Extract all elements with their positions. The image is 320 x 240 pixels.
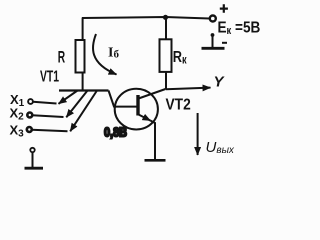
emitter arrow X1 of VT1 bbox=[59, 91, 78, 104]
junction node on top rail bbox=[163, 15, 168, 20]
transistor VT2 base bar bbox=[136, 95, 139, 116]
svg-text:0,8В: 0,8В bbox=[104, 125, 127, 140]
transistor VT2 emitter lead with arrow bbox=[139, 115, 151, 121]
output voltage arrow Uout bbox=[197, 113, 199, 155]
wire R top lead bbox=[82, 18, 84, 41]
ground supply side bbox=[202, 47, 225, 50]
supply + terminal bbox=[210, 16, 216, 22]
wire input X3 bbox=[32, 130, 68, 132]
wire emitter to ground bbox=[151, 121, 156, 160]
plus sign bbox=[220, 4, 228, 13]
wire top rail from R to +Ek terminal bbox=[82, 17, 209, 19]
resistor Rk bbox=[160, 39, 172, 72]
svg-text:Y: Y bbox=[214, 74, 226, 91]
wire R bottom lead bbox=[82, 73, 84, 92]
svg-text:VT1: VT1 bbox=[40, 67, 59, 85]
svg-text:R: R bbox=[58, 47, 65, 66]
wire Rk top lead bbox=[165, 17, 167, 39]
wire input X1 bbox=[33, 102, 57, 104]
svg-text:Iб: Iб bbox=[108, 46, 119, 61]
output arrow Y bbox=[166, 88, 211, 90]
ground emitter side bbox=[145, 159, 166, 162]
wire input ground lead bbox=[32, 152, 34, 167]
svg-text:X3: X3 bbox=[10, 123, 25, 140]
svg-text:VT2: VT2 bbox=[166, 96, 191, 114]
wire Rk bottom lead bbox=[165, 72, 167, 90]
minus sign bbox=[222, 42, 227, 44]
node X3 terminal bbox=[27, 127, 32, 132]
wire - terminal lead bbox=[212, 35, 214, 48]
supply - terminal dot bbox=[211, 33, 215, 37]
node X1 terminal bbox=[28, 99, 33, 104]
wire base bend into VT2 bbox=[109, 91, 137, 107]
emitter arrow X2 of VT1 bbox=[66, 91, 87, 118]
svg-text:Uвых: Uвых bbox=[206, 139, 235, 156]
svg-text:Ек =5В: Ек =5В bbox=[218, 20, 261, 38]
transistor VT2 body bbox=[115, 89, 158, 130]
emitter arrow X3 of VT1 bbox=[70, 91, 97, 132]
resistor R bbox=[76, 40, 85, 73]
transistor VT2 collector lead bbox=[139, 89, 166, 99]
current arrow Ib curved bbox=[93, 34, 117, 75]
svg-text:Rк: Rк bbox=[173, 49, 188, 67]
wire input X2 bbox=[32, 115, 63, 117]
wire base bus bbox=[59, 89, 109, 91]
node X2 terminal bbox=[27, 113, 32, 118]
ground input side bbox=[25, 167, 44, 170]
input common terminal bbox=[30, 148, 34, 152]
